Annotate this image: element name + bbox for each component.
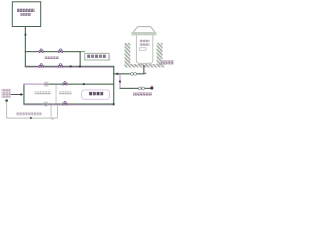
valve V6 on loop bottom edge bbox=[63, 101, 67, 105]
control cabinet text line3 bbox=[2, 96, 11, 98]
pink specks on pit bottom bbox=[130, 64, 132, 65]
valve V8 on drain line2 bbox=[139, 87, 145, 90]
wire: pale riser B to loop bottom bbox=[56, 105, 59, 119]
pump P2 circle on bottom edge bbox=[42, 102, 49, 106]
wire: drain line 2 bbox=[120, 88, 152, 89]
tank inner text line1 bbox=[140, 40, 150, 43]
wire: loop right edge header bbox=[113, 66, 114, 105]
box B1 label line 1 bbox=[17, 9, 35, 12]
rounded box text bbox=[89, 92, 103, 95]
divider pale line inside loop bbox=[55, 85, 58, 104]
label box: manual lube pump bbox=[85, 53, 109, 60]
label box shadow bbox=[108, 55, 111, 61]
wire: tank drain riser bbox=[143, 65, 144, 74]
text right of pit bbox=[161, 60, 174, 64]
valve V7 on drain line1 bbox=[131, 73, 137, 76]
pipe spec text under branch1 bbox=[45, 56, 60, 59]
end fitting dot on line2 bbox=[150, 86, 153, 89]
wire: drain line 1 bbox=[113, 73, 144, 74]
wire: gray control drop bbox=[6, 102, 7, 119]
tank vessel body bbox=[136, 35, 152, 63]
wire: branch 2 purple shadow bbox=[25, 66, 114, 69]
control cabinet text line1 bbox=[2, 89, 11, 92]
pink halo above end dot bbox=[151, 86, 153, 87]
pit bottom (hatched) bbox=[124, 64, 164, 67]
pit wall left (hatched) bbox=[125, 43, 131, 64]
node: dot on control bus bbox=[30, 117, 32, 119]
wire: purple drop from line1 bbox=[120, 74, 121, 88]
node: junction dot on top edge bbox=[83, 83, 85, 85]
wire: loop top edge purple segment bbox=[23, 84, 44, 85]
node: purple dot near drain riser bbox=[145, 73, 147, 75]
pit wall right (hatched) bbox=[157, 43, 163, 64]
tank inner small rect bbox=[139, 48, 146, 51]
box B1 label line 2 bbox=[21, 13, 32, 16]
pink tick on bus bbox=[52, 118, 54, 121]
node: fitting dot on riser bbox=[25, 34, 27, 36]
wire: gray control bus bbox=[6, 118, 58, 119]
tank inner text line2 bbox=[140, 43, 150, 46]
node: junction dot on branch2 bbox=[70, 65, 72, 67]
node: junction dot at connector/branch2 bbox=[79, 65, 81, 67]
node: dot on purple drop bbox=[119, 81, 121, 83]
pink text under line2 bbox=[133, 92, 152, 95]
tank lid slab bbox=[131, 32, 156, 35]
wire: main riser from B1 bbox=[25, 27, 26, 67]
wire: loop bottom edge bbox=[23, 104, 114, 105]
node: dot below control text bbox=[5, 99, 8, 102]
supply box B1 (top-left equipment box) bbox=[12, 2, 40, 27]
valve V5 on loop top edge bbox=[63, 82, 67, 86]
control cabinet text line2 bbox=[2, 92, 11, 95]
pump P1 circle on top edge bbox=[44, 82, 49, 86]
node: bottom-right corner dot bbox=[113, 103, 115, 105]
wire: pale riser A to loop bottom bbox=[50, 105, 53, 119]
tank dome arc bbox=[133, 27, 154, 32]
valve V3 on branch 2 bbox=[39, 64, 43, 68]
valve V4 on branch 2 bbox=[59, 64, 63, 68]
valve V1 on branch 1 bbox=[39, 49, 43, 53]
label box text bbox=[87, 55, 106, 58]
wire: branch 2 horizontal bbox=[25, 66, 114, 67]
pink specks on pit walls bbox=[126, 44, 127, 47]
loop interior text 1 bbox=[35, 91, 51, 94]
valve V2 on branch 1 bbox=[59, 49, 63, 53]
wire: connector down from branch1 to branch2 bbox=[80, 51, 81, 67]
bottom pink note text bbox=[16, 113, 42, 116]
wire: loop bottom edge purple shadow bbox=[23, 104, 114, 107]
wire: loop left edge bbox=[23, 84, 24, 105]
wire: branch 1 horizontal bbox=[25, 51, 81, 52]
rounded label box: starter bbox=[82, 90, 110, 99]
node: junction dot on line1 bbox=[116, 73, 118, 75]
wire: loop top edge green segment bbox=[44, 84, 114, 85]
loop interior text 2 bbox=[59, 91, 71, 94]
arrow into loop bbox=[11, 93, 24, 96]
wire: branch1 stub to label box bbox=[80, 51, 85, 52]
purple tick on bottom edge bbox=[53, 103, 55, 104]
